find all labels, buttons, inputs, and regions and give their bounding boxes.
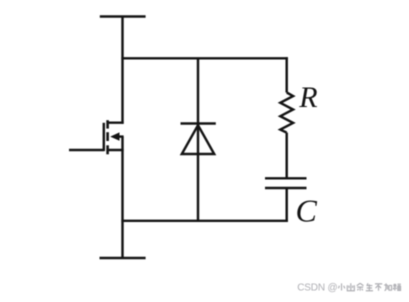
glyph 生 <box>366 283 373 290</box>
transistor Q1 (N-channel MOSFET) <box>69 120 124 154</box>
glyph 糖 <box>393 284 401 291</box>
drain lead <box>108 121 124 123</box>
channel segment bottom <box>106 145 109 154</box>
watermark chinese glyphs (hand-drawn strokes) <box>338 283 400 290</box>
body arrow <box>110 132 119 140</box>
capacitor bottom plate <box>265 187 307 189</box>
glyph 小 <box>338 283 344 290</box>
svg-text:CSDN @: CSDN @ <box>297 283 337 294</box>
diode vertical wire <box>197 58 199 221</box>
svg-text:R: R <box>298 81 317 114</box>
diode cathode bar <box>181 122 216 124</box>
power rail top <box>100 15 146 18</box>
diode triangle <box>182 125 214 154</box>
resistor bottom lead <box>285 133 287 179</box>
channel segment top <box>106 120 109 128</box>
power rail bottom <box>100 257 146 260</box>
resistor top lead <box>285 57 287 92</box>
source lead <box>108 149 124 151</box>
watermark CSDN <box>297 283 337 294</box>
glyph 不 <box>375 284 382 291</box>
resistor zigzag <box>280 93 293 133</box>
gate lead <box>69 149 104 151</box>
capacitor bottom lead <box>285 188 287 222</box>
wire: top horizontal bus <box>121 57 287 59</box>
diode D1 <box>181 58 216 221</box>
body lead <box>119 135 124 137</box>
channel segment middle <box>106 132 109 141</box>
svg-text:C: C <box>296 193 318 229</box>
wire: source vertical down to bottom rail <box>121 150 123 258</box>
gate plate <box>103 123 105 151</box>
glyph 加 <box>384 283 391 290</box>
capacitor C <box>265 178 307 222</box>
wire: bottom horizontal bus <box>121 220 287 222</box>
capacitor top plate <box>265 177 307 179</box>
wire: drain vertical from top rail to MOSFET <box>121 17 123 124</box>
body-to-source vertical <box>121 137 123 150</box>
glyph 余 <box>357 283 364 290</box>
resistor R <box>280 57 293 178</box>
glyph 幽 <box>347 283 354 290</box>
